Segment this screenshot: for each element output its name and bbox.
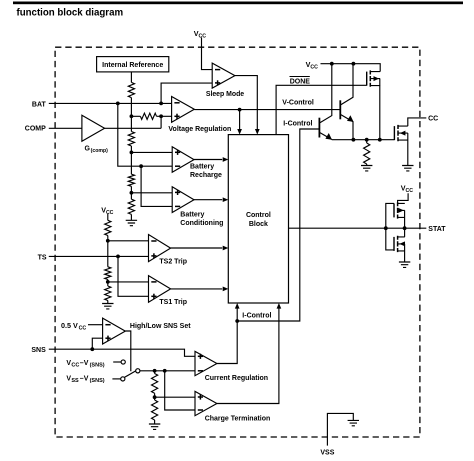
ground sense divider (149, 424, 160, 429)
resistor TS R3 (105, 286, 111, 301)
arrow recharge into block (223, 157, 229, 162)
wire TS (49, 255, 149, 257)
resistor TS R1 (105, 220, 111, 235)
svg-text:V-Control: V-Control (282, 99, 314, 106)
svg-text:(SNS): (SNS) (90, 378, 105, 384)
svg-text:CC: CC (106, 210, 114, 216)
wire M2 drain to CC (408, 118, 427, 126)
switch pole (136, 369, 140, 373)
resistor ladder R2 (128, 132, 134, 147)
wire conditioning out (194, 199, 222, 201)
wire ts2 out (171, 247, 223, 249)
arrow ts2 into block (223, 246, 229, 251)
wire recharge out (194, 159, 222, 161)
node dot ladder recharge (130, 151, 134, 155)
wire sleep out (235, 76, 257, 131)
switch lever (125, 371, 136, 377)
svg-text:SS: SS (71, 378, 79, 384)
node dot rail q2 (330, 62, 334, 66)
resistor sense R1 (152, 374, 158, 394)
wire BAT (49, 102, 172, 104)
svg-text:CC: CC (79, 326, 87, 332)
svg-text:STAT: STAT (428, 226, 446, 233)
wire emitter rail (332, 139, 395, 141)
svg-text:–V: –V (80, 360, 89, 367)
op-amp TS2 trip (149, 235, 171, 262)
wire ts2 minus (108, 240, 149, 242)
wire pole resistor lead (154, 371, 156, 374)
wire VSS (327, 413, 353, 445)
transistor Q2 (I-Control NPN) (318, 118, 320, 138)
wire ladder seg2 (130, 146, 132, 174)
node dot ts1 minus (106, 280, 110, 284)
node dot pole resistor (153, 369, 157, 373)
wire VCC to sleep minus (202, 38, 213, 70)
svg-text:CC: CC (71, 363, 79, 369)
wire conditioning plus (131, 192, 172, 194)
resistor R5 (BAT divider) (140, 113, 156, 119)
wire M4 source gnd (404, 244, 406, 262)
resistor ladder R3 (128, 174, 134, 186)
node dot ladder/R5 (130, 114, 134, 118)
node dot TS line (116, 255, 120, 259)
wire contact2 (112, 378, 120, 380)
svg-text:DONE: DONE (290, 79, 311, 86)
wire SNS (49, 349, 195, 356)
svg-text:Control: Control (246, 212, 271, 219)
node dot v-control branch (238, 108, 242, 112)
ground TS ladder (102, 304, 113, 309)
svg-text:I-Control: I-Control (242, 313, 271, 320)
arrow ts1 into block (223, 287, 229, 292)
op-amp G(comp) (82, 115, 105, 141)
svg-text:0.5 V: 0.5 V (61, 321, 78, 330)
svg-text:VSS: VSS (320, 449, 334, 456)
wire contact1 (113, 361, 121, 363)
switch contact 2 (121, 377, 125, 381)
op-amp charge termination (195, 391, 217, 415)
wire ref to ladder (130, 72, 132, 83)
transistor M1 (DONE PMOS) (366, 72, 368, 86)
resistor TS R2 (105, 267, 111, 280)
op-amp voltage regulation (172, 97, 195, 123)
svg-text:Conditioning: Conditioning (180, 220, 223, 227)
ground M2 (402, 166, 413, 171)
wire node A row (131, 115, 171, 117)
resistor ladder R1 (128, 82, 134, 97)
node dot BAT/sleep (159, 102, 163, 106)
svg-text:–V: –V (80, 375, 89, 382)
wire ladder seg1 (130, 98, 132, 132)
node dot BAT/divider (116, 102, 120, 106)
wire TS to TS1 plus (118, 256, 149, 296)
transistor M3 (STAT PMOS) (393, 203, 395, 217)
wire ts ladder gnd lead (107, 301, 109, 304)
svg-text:(comp): (comp) (91, 148, 109, 154)
svg-text:BAT: BAT (32, 102, 47, 109)
transistor M2 (CC NMOS) (393, 126, 395, 140)
svg-text:CC: CC (310, 64, 318, 70)
svg-text:Sleep Mode: Sleep Mode (206, 91, 244, 98)
wire DONE (276, 85, 367, 134)
op-amp TS1 trip (149, 276, 171, 303)
wire tap to chgterm plus (155, 396, 195, 398)
wire sense tap (154, 393, 156, 400)
arrow conditioning into block (223, 197, 229, 202)
node dot rail q1 (352, 62, 356, 66)
wire i-control loop (237, 129, 319, 321)
svg-text:Block: Block (249, 221, 268, 228)
svg-text:Battery: Battery (180, 212, 204, 219)
wire pole line (140, 370, 195, 372)
transistor Q1 (V-Control NPN) (339, 100, 341, 119)
node dot ladder conditioning (130, 191, 134, 195)
svg-text:TS1 Trip: TS1 Trip (159, 299, 187, 306)
wire BAT branch down (118, 103, 172, 166)
node dot stat gate (384, 226, 388, 230)
node dot ts2 minus (106, 239, 110, 243)
ground M4 (399, 262, 410, 267)
wire stat out (386, 227, 427, 229)
svg-text:SNS: SNS (31, 347, 46, 354)
svg-text:Current Regulation: Current Regulation (205, 375, 268, 382)
wire sns to plus (92, 338, 102, 349)
arrow i-control into block (235, 303, 240, 309)
wire charge term out (217, 306, 279, 403)
wire highlow out (125, 331, 131, 371)
wire stat input (289, 227, 386, 229)
wire ladder to ground (130, 214, 132, 220)
wire ts1 minus (108, 281, 149, 283)
wire current reg out (217, 306, 237, 363)
wire vccL lead (107, 214, 109, 220)
ground VSS (348, 420, 359, 425)
svg-text:Charge Termination: Charge Termination (205, 416, 271, 423)
resistor ladder R4 (128, 199, 134, 214)
svg-text:Recharge: Recharge (190, 172, 222, 179)
svg-text:(SNS): (SNS) (90, 363, 105, 369)
svg-text:CC: CC (428, 115, 438, 122)
node dot rail drain (378, 138, 382, 142)
wire ts1 minus node (107, 280, 109, 287)
wire stat gate rail (386, 203, 394, 250)
wire M1 drain (379, 79, 381, 140)
control block U1 (228, 135, 288, 303)
transistor M4 (STAT NMOS) (393, 237, 395, 251)
wire sleep plus tap (161, 83, 212, 103)
ground ladder (126, 220, 137, 225)
wire VCC rail (321, 64, 381, 72)
wire recharge plus (131, 151, 172, 153)
svg-text:I-Control: I-Control (283, 120, 312, 127)
wire COMP (49, 127, 82, 129)
wire v-control into block (239, 110, 241, 131)
wire M2 source to gnd (407, 133, 409, 165)
wire chgterm minus (165, 371, 195, 410)
svg-text:TS2 Trip: TS2 Trip (159, 259, 187, 266)
svg-text:function block diagram: function block diagram (17, 7, 124, 18)
wire M4 drain (404, 228, 406, 237)
wire sense gnd lead (154, 420, 156, 424)
op-amp battery recharge (172, 147, 194, 173)
top rule bar (13, 2, 463, 5)
wire Gcomp out (105, 127, 162, 129)
wire M3 drain (404, 210, 406, 228)
op-amp current regulation (195, 351, 217, 375)
wire ts2 minus node (107, 236, 109, 267)
node dot pole branch (163, 369, 167, 373)
svg-text:TS: TS (38, 254, 47, 261)
wire V-Control line (194, 109, 340, 111)
node dot sense tap (153, 395, 157, 399)
svg-text:Battery: Battery (190, 164, 214, 171)
node dot stat out (403, 226, 407, 230)
svg-text:High/Low SNS Set: High/Low SNS Set (130, 323, 191, 330)
node dot R5 right (159, 114, 163, 118)
ground pulldown (361, 166, 372, 171)
node dot i-control (235, 319, 239, 323)
resistor sense R2 (152, 400, 158, 420)
wire ladder seg3 (130, 186, 132, 199)
op-amp battery conditioning (172, 187, 194, 213)
op-amp sleep mode (212, 63, 235, 88)
arrow sleep into block (255, 129, 260, 135)
svg-text:CC: CC (199, 33, 207, 39)
IC boundary (dashed) (55, 47, 420, 437)
node dot BAT branch/cond (139, 164, 143, 168)
internal reference box (97, 57, 169, 72)
arrow charge term into block (277, 303, 282, 309)
switch contact 1 (121, 360, 125, 364)
wire 0.5vcc to minus (88, 324, 103, 326)
svg-text:Internal Reference: Internal Reference (102, 62, 163, 69)
svg-text:CC: CC (406, 188, 414, 194)
svg-text:G: G (85, 145, 91, 152)
svg-text:COMP: COMP (25, 126, 46, 133)
node dot rail res (365, 138, 369, 142)
resistor pulldown R (366, 140, 368, 143)
node dot sns (90, 347, 94, 351)
wire cond minus branch (141, 166, 172, 206)
node dot rail e (352, 138, 356, 142)
svg-text:Voltage Regulation: Voltage Regulation (168, 126, 231, 133)
wire vcc stat (398, 193, 409, 203)
wire VRplus to Gcomp out (160, 116, 162, 128)
wire ts1 out (171, 288, 223, 290)
arrow v-control into block (237, 129, 242, 135)
op-amp high/low SNS set (103, 318, 126, 344)
